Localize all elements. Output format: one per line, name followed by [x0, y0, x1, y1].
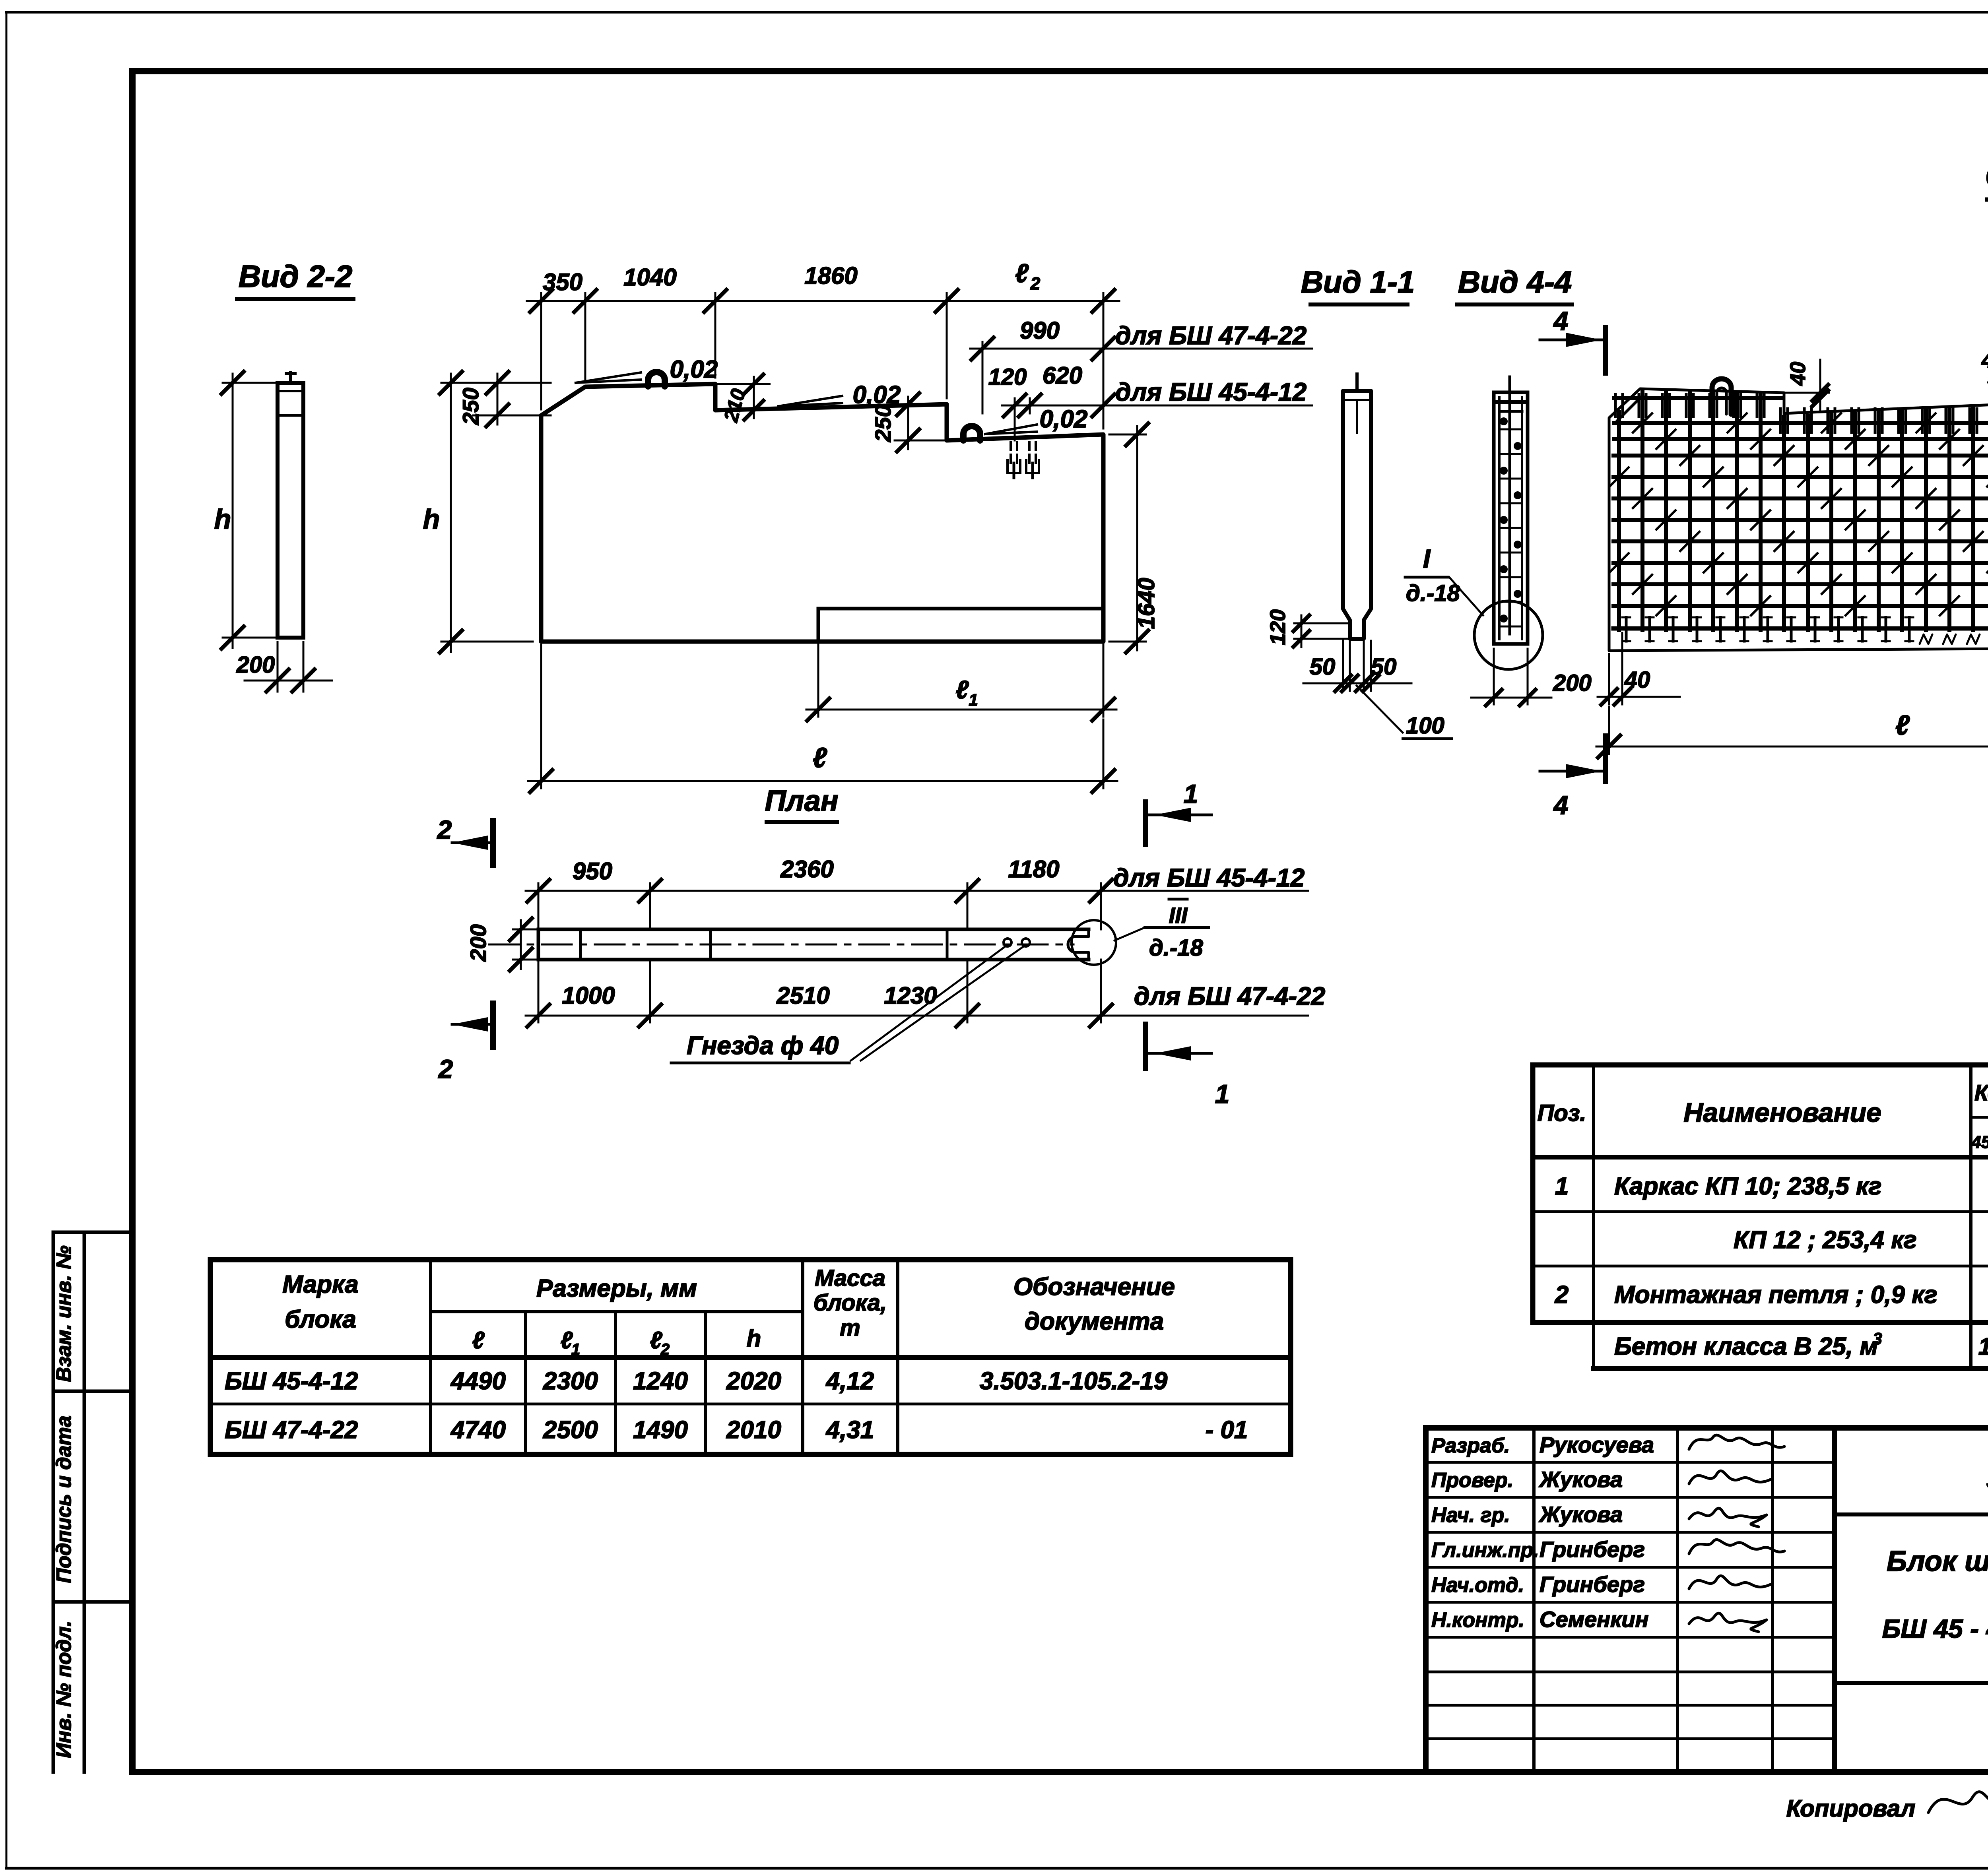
- svg-text:120: 120: [988, 364, 1027, 390]
- svg-text:Кол.на БШ: Кол.на БШ: [1974, 1080, 1988, 1105]
- svg-text:2: 2: [1555, 1281, 1569, 1309]
- elevation block outline: [541, 384, 1103, 642]
- svg-text:- 01: - 01: [1206, 1416, 1248, 1444]
- view 1-1 column: [1343, 391, 1371, 639]
- mesh bottom stubs left: [1625, 617, 1628, 641]
- elevation l1 dim: [817, 645, 819, 717]
- svg-text:БШ 45-4-12: БШ 45-4-12: [225, 1367, 358, 1395]
- elevation bottom ledge: [818, 607, 1103, 611]
- svg-text:3: 3: [1873, 1329, 1882, 1348]
- view 4-4 detail circle I: [1474, 601, 1543, 669]
- svg-text:1000: 1000: [562, 982, 615, 1009]
- svg-text:1180: 1180: [1008, 856, 1059, 882]
- plan detail circle III: [1072, 920, 1116, 965]
- svg-text:Гнезда ф 40: Гнезда ф 40: [687, 1031, 839, 1060]
- svg-text:1,65: 1,65: [1978, 1333, 1988, 1360]
- svg-text:4: 4: [1553, 306, 1569, 335]
- plan section mark 1 top: [1143, 802, 1148, 844]
- svg-text:2: 2: [438, 1054, 453, 1084]
- view 1-1 100 leader: [1357, 686, 1403, 733]
- svg-text:Размеры, мм: Размеры, мм: [536, 1275, 697, 1302]
- svg-text:Блок шкафной стенки: Блок шкафной стенки: [1887, 1545, 1988, 1577]
- svg-text:4740: 4740: [450, 1416, 506, 1444]
- mesh vertical bars: [1617, 412, 1621, 630]
- svg-text:3. 503.1 - 105. 2 - 19: 3. 503.1 - 105. 2 - 19: [1986, 1463, 1988, 1495]
- elevation 1640 dim: [1109, 434, 1146, 436]
- parts table: [1533, 1065, 1988, 1322]
- svg-text:ℓ: ℓ: [472, 1327, 485, 1353]
- svg-text:Жукова: Жукова: [1538, 1467, 1623, 1492]
- svg-text:для БШ 47-4-22: для БШ 47-4-22: [1134, 982, 1325, 1010]
- plan 200 dim: [513, 929, 547, 931]
- svg-text:1240: 1240: [633, 1367, 688, 1395]
- svg-text:1860: 1860: [804, 262, 857, 289]
- svg-text:40: 40: [1981, 347, 1988, 372]
- view 4-4 column: [1494, 392, 1528, 644]
- view 4-4 200 dim: [1493, 649, 1495, 704]
- svg-text:2: 2: [1030, 274, 1041, 293]
- svg-text:2020: 2020: [726, 1367, 781, 1395]
- svg-text:2360: 2360: [780, 856, 833, 882]
- svg-text:Масса: Масса: [815, 1265, 885, 1291]
- mesh hook ticks: [1609, 467, 1629, 487]
- svg-text:Нач. гр.: Нач. гр.: [1431, 1504, 1510, 1527]
- svg-text:4: 4: [1553, 790, 1569, 820]
- svg-text:ℓ: ℓ: [1015, 258, 1029, 288]
- mesh dim 40 bottom-left: [1608, 654, 1610, 704]
- embedded anchors (hidden): [1010, 442, 1012, 464]
- svg-text:0,02: 0,02: [1040, 405, 1088, 433]
- svg-text:I: I: [1423, 544, 1431, 573]
- svg-text:200: 200: [1553, 670, 1592, 696]
- elevation 120 620 dim: [1014, 398, 1016, 440]
- svg-text:2510: 2510: [776, 982, 829, 1009]
- svg-text:т: т: [840, 1315, 860, 1341]
- svg-text:Н.контр.: Н.контр.: [1431, 1609, 1524, 1632]
- svg-text:Схема армирования: Схема армирования: [1985, 158, 1988, 194]
- svg-text:1: 1: [969, 690, 978, 709]
- elevation 250 left dim: [473, 415, 551, 417]
- elevation top dims 350 1040 1860 l2: [540, 293, 542, 409]
- svg-text:1: 1: [1184, 779, 1198, 809]
- svg-text:4490: 4490: [450, 1367, 506, 1395]
- mesh dim 40 top-left: [1819, 360, 1821, 410]
- elevation 990 dim: [982, 342, 984, 413]
- svg-text:2300: 2300: [543, 1367, 598, 1395]
- svg-text:Вид 4-4: Вид 4-4: [1458, 264, 1572, 299]
- svg-text:4,31: 4,31: [825, 1416, 874, 1444]
- left stamp column: [52, 1232, 55, 1772]
- svg-text:1490: 1490: [633, 1416, 688, 1444]
- svg-text:2010: 2010: [726, 1416, 781, 1444]
- svg-text:д.-18: д.-18: [1149, 935, 1204, 961]
- svg-text:Гл.инж.пр.: Гл.инж.пр.: [1431, 1539, 1539, 1562]
- svg-text:2: 2: [660, 1341, 670, 1358]
- svg-text:документа: документа: [1025, 1308, 1164, 1335]
- svg-text:для БШ 45-4-12: для БШ 45-4-12: [1115, 378, 1307, 406]
- view 1-1 50 50 dims: [1342, 641, 1344, 691]
- svg-text:БШ 45 - 4 - 12 , БШ 47-4-22: БШ 45 - 4 - 12 , БШ 47-4-22: [1882, 1614, 1988, 1643]
- svg-text:1: 1: [1555, 1173, 1569, 1200]
- svg-text:Поз.: Поз.: [1538, 1100, 1586, 1126]
- svg-text:1: 1: [571, 1341, 580, 1358]
- section mark 4 top: [1603, 328, 1608, 373]
- svg-text:100: 100: [1406, 713, 1444, 739]
- svg-text:Монтажная петля ; 0,9 кг: Монтажная петля ; 0,9 кг: [1614, 1281, 1938, 1309]
- svg-text:50: 50: [1310, 654, 1336, 680]
- svg-text:990: 990: [1020, 317, 1060, 344]
- plan top dims 950 2360 1180: [538, 883, 540, 929]
- svg-text:ℓ: ℓ: [955, 675, 969, 704]
- svg-text:Вид 1-1: Вид 1-1: [1301, 264, 1415, 299]
- plan strip dividers: [579, 929, 582, 960]
- svg-text:ℓ: ℓ: [813, 742, 827, 773]
- svg-text:Подпись и дата: Подпись и дата: [52, 1415, 76, 1583]
- svg-text:БШ 47-4-22: БШ 47-4-22: [225, 1416, 358, 1444]
- elevation 210 step dim: [715, 383, 769, 385]
- slope mark 0,02 left: [576, 372, 641, 383]
- svg-text:Наименование: Наименование: [1683, 1097, 1881, 1128]
- svg-text:2500: 2500: [543, 1416, 598, 1444]
- svg-text:0,02: 0,02: [670, 356, 718, 383]
- svg-text:для БШ 47-4-22: для БШ 47-4-22: [1115, 321, 1307, 350]
- plan bottom dims 1000 2510 1230: [538, 960, 540, 1022]
- view 2-2 h dim: [223, 382, 282, 384]
- title block: [1426, 1428, 1988, 1772]
- svg-text:40: 40: [1624, 667, 1650, 693]
- view 1-1 120 dim: [1294, 622, 1348, 624]
- svg-text:h: h: [747, 1325, 761, 1352]
- svg-text:1: 1: [1215, 1079, 1230, 1109]
- svg-text:Семенкин: Семенкин: [1540, 1607, 1648, 1632]
- mesh lifting loop left: [1712, 379, 1731, 414]
- svg-text:1040: 1040: [623, 264, 676, 291]
- svg-text:Инв. № подл.: Инв. № подл.: [52, 1621, 76, 1758]
- view 2-2 column: [278, 383, 303, 638]
- mesh dim l bottom: [1608, 707, 1610, 754]
- svg-text:Гринберг: Гринберг: [1540, 1537, 1645, 1562]
- svg-text:h: h: [214, 504, 231, 535]
- section mark 4 bottom: [1603, 736, 1608, 781]
- svg-text:Рукосуева: Рукосуева: [1540, 1432, 1654, 1457]
- svg-text:950: 950: [573, 858, 612, 884]
- svg-text:Нач.отд.: Нач.отд.: [1431, 1574, 1524, 1597]
- svg-text:Разраб.: Разраб.: [1431, 1434, 1510, 1457]
- svg-text:3.503.1-105.2-19: 3.503.1-105.2-19: [980, 1367, 1168, 1395]
- mesh top hook stubs: [1614, 394, 1617, 417]
- slope mark 0,02 right: [985, 425, 1037, 434]
- svg-text:Обозначение: Обозначение: [1013, 1273, 1175, 1301]
- svg-text:Каркас КП 10; 238,5 кг: Каркас КП 10; 238,5 кг: [1614, 1173, 1882, 1200]
- svg-text:4,12: 4,12: [825, 1367, 874, 1395]
- svg-text:ℓ: ℓ: [1895, 710, 1910, 741]
- svg-text:III: III: [1169, 903, 1188, 928]
- svg-text:1230: 1230: [884, 982, 937, 1009]
- svg-text:250: 250: [870, 405, 895, 442]
- lifting loop on elevation left: [648, 372, 665, 386]
- svg-text:200: 200: [466, 924, 491, 962]
- lifting loop on elevation right: [963, 426, 980, 440]
- plan section mark 2 top: [490, 821, 496, 865]
- svg-text:2: 2: [437, 815, 452, 844]
- elevation 250 step2 dim: [895, 440, 951, 442]
- plan strip outline: [538, 928, 1089, 931]
- svg-text:д.-18: д.-18: [1406, 580, 1460, 606]
- plan section mark 2 bottom: [490, 1003, 496, 1047]
- svg-text:1640: 1640: [1134, 578, 1159, 629]
- svg-text:Марка: Марка: [282, 1271, 358, 1298]
- svg-text:h: h: [423, 504, 440, 535]
- svg-text:Вид 2-2: Вид 2-2: [239, 259, 353, 294]
- elevation l dim: [540, 645, 542, 788]
- svg-text:Бетон класса В 25, м: Бетон класса В 25, м: [1614, 1333, 1878, 1360]
- elevation h dim: [441, 382, 551, 384]
- svg-text:План: План: [765, 784, 838, 817]
- svg-text:40: 40: [1786, 362, 1810, 386]
- mesh inner chamfer line: [1617, 395, 1643, 421]
- svg-text:Взам. инв. №: Взам. инв. №: [52, 1245, 76, 1382]
- svg-text:120: 120: [1266, 609, 1290, 645]
- designation cell: [1835, 1512, 1988, 1516]
- svg-text:Жукова: Жукова: [1538, 1502, 1623, 1527]
- svg-text:Гринберг: Гринберг: [1540, 1572, 1645, 1597]
- svg-text:КП 12 ; 253,4 кг: КП 12 ; 253,4 кг: [1734, 1226, 1917, 1254]
- mesh bottom zigzags right: [1920, 634, 1932, 644]
- svg-text:45-4-12: 45-4-12: [1971, 1132, 1988, 1152]
- svg-text:Копировал: Копировал: [1786, 1795, 1916, 1822]
- svg-text:250: 250: [458, 388, 483, 425]
- svg-text:блока: блока: [285, 1306, 356, 1333]
- svg-text:блока,: блока,: [813, 1290, 887, 1316]
- svg-text:350: 350: [543, 269, 582, 295]
- svg-text:0,02: 0,02: [853, 381, 901, 409]
- slope mark 0,02 middle: [779, 396, 842, 406]
- mesh concrete outline: [1609, 389, 1988, 651]
- svg-text:620: 620: [1043, 362, 1082, 389]
- mesh horizontal bars: [1614, 396, 1781, 400]
- svg-text:Провер.: Провер.: [1431, 1469, 1513, 1492]
- view 2-2 200 dim: [277, 642, 279, 692]
- svg-text:50: 50: [1371, 654, 1397, 680]
- blocks table: [210, 1260, 1291, 1454]
- svg-text:200: 200: [236, 652, 275, 678]
- plan centerline: [489, 944, 1074, 946]
- gnezda holes: [1004, 938, 1011, 946]
- plan section mark 1 bottom: [1143, 1024, 1148, 1068]
- svg-text:для БШ 45-4-12: для БШ 45-4-12: [1113, 863, 1305, 892]
- outer sheet border: [6, 11, 1988, 14]
